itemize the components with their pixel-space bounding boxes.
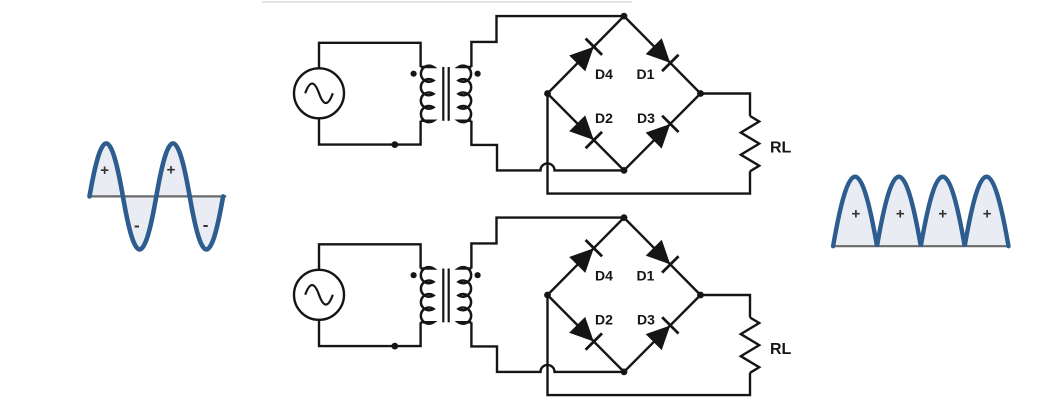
svg-text:RL: RL [770, 341, 792, 358]
transformer T1 primary winding [421, 66, 434, 122]
svg-text:D2: D2 [595, 312, 613, 328]
input waveform sine curve [90, 143, 224, 249]
svg-text:RL: RL [770, 140, 792, 157]
wire secondary bottom to bridge (hops over left-node wire) [471, 322, 624, 372]
wire bridge edge bottom-right [624, 295, 701, 372]
node bridge right [697, 90, 704, 97]
svg-text:+: + [938, 206, 947, 223]
diode D3 [645, 317, 678, 350]
transformer T2 secondary phase dot [475, 272, 481, 278]
svg-text:D3: D3 [637, 110, 655, 126]
input waveform axis [88, 195, 226, 197]
diode D2 [569, 115, 602, 148]
wire bridge edge left-bottom [548, 94, 625, 171]
faint top edge artifact [262, 1, 632, 3]
wire bridge edge left-top [548, 218, 625, 295]
input waveform shaded area [90, 143, 224, 249]
transformer T2 primary phase dot [411, 272, 417, 278]
diode D1 [645, 38, 678, 71]
svg-text:-: - [134, 216, 140, 235]
wire primary loop bottom [319, 320, 421, 346]
output waveform shaded area [833, 177, 1008, 247]
transformer T1 core [443, 67, 448, 121]
node primary bottom terminal [391, 141, 398, 148]
svg-text:D4: D4 [595, 66, 613, 82]
node bridge right [697, 292, 704, 299]
transformer T1 primary phase dot [411, 71, 417, 77]
svg-text:D4: D4 [595, 268, 613, 284]
output waveform rectified curve [833, 177, 1008, 247]
transformer T1 secondary phase dot [475, 71, 481, 77]
wire bridge edge left-top [548, 16, 625, 93]
diode D2 [569, 317, 602, 350]
ac source V2 [294, 270, 344, 320]
node bridge left [544, 292, 551, 299]
node bridge top [621, 13, 628, 20]
wire bridge edge bottom-right [624, 94, 701, 171]
wire RL bottom rail to bridge left node [548, 94, 751, 194]
transformer T2 primary winding [421, 267, 434, 324]
wire primary loop top [319, 244, 421, 269]
svg-text:+: + [896, 206, 905, 223]
wire secondary top to bridge [471, 218, 624, 269]
wire bridge edge top-right [624, 218, 701, 295]
resistor RL [741, 318, 792, 373]
resistor RL [741, 116, 792, 171]
transformer T1 secondary winding [459, 66, 472, 122]
ac source V1 [294, 68, 344, 118]
wire bridge edge top-right [624, 16, 701, 93]
svg-text:D1: D1 [637, 268, 655, 284]
svg-text:-: - [203, 215, 209, 234]
diode D3 [645, 116, 678, 149]
node bridge bottom [621, 369, 628, 376]
wire bridge right to RL [701, 94, 751, 117]
node bridge left [544, 90, 551, 97]
wire primary loop bottom [319, 118, 421, 144]
transformer T2 secondary winding [459, 267, 472, 324]
wire bridge right to RL [701, 295, 751, 318]
diode D1 [645, 239, 678, 272]
output waveform axis [833, 245, 1008, 247]
wire secondary top to bridge [471, 16, 624, 67]
transformer T2 core [443, 269, 448, 323]
svg-text:D2: D2 [595, 110, 613, 126]
svg-text:+: + [852, 206, 861, 223]
svg-text:+: + [100, 162, 109, 179]
wire bridge edge left-bottom [548, 295, 625, 372]
node bridge top [621, 214, 628, 221]
wire RL bottom rail to bridge left node [548, 295, 751, 395]
svg-text:+: + [983, 206, 992, 223]
svg-text:+: + [167, 161, 176, 178]
node primary bottom terminal [391, 343, 398, 350]
wire secondary bottom to bridge (hops over left-node wire) [471, 121, 624, 171]
svg-text:D1: D1 [637, 66, 655, 82]
svg-text:D3: D3 [637, 312, 655, 328]
node bridge bottom [621, 167, 628, 174]
diode D4 [569, 39, 602, 72]
diode D4 [569, 240, 602, 273]
wire primary loop top [319, 43, 421, 69]
